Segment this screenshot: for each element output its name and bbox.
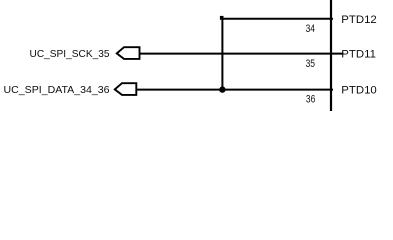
wire pin35 horizontal — [140, 53, 344, 55]
svg-text:34: 34 — [306, 23, 315, 35]
wire pin34 horizontal — [222, 18, 333, 20]
junction — [219, 86, 225, 92]
net flag UC_SPI_SCK_35 — [117, 47, 140, 59]
svg-text:PTD11: PTD11 — [341, 49, 376, 61]
pin number 34 — [306, 23, 315, 35]
wire vertical bus 34-36 — [221, 18, 223, 90]
svg-text:PTD12: PTD12 — [341, 14, 376, 26]
net flag UC_SPI_DATA_34_36 — [115, 83, 137, 95]
svg-text:UC_SPI_SCK_35: UC_SPI_SCK_35 — [30, 49, 110, 60]
pin name PTD11 — [341, 49, 376, 61]
pin number 35 — [306, 58, 315, 70]
svg-text:PTD10: PTD10 — [341, 85, 376, 97]
svg-text:36: 36 — [306, 93, 315, 105]
IC body edge U1 — [330, 0, 332, 111]
wire pin36 horizontal — [136, 89, 333, 91]
pin number 36 — [306, 93, 315, 105]
pin name PTD12 — [341, 14, 376, 26]
pin name PTD10 — [341, 85, 376, 97]
wire corner joint — [220, 16, 224, 20]
net label UC_SPI_SCK_35 — [30, 49, 110, 60]
net label UC_SPI_DATA_34_36 — [4, 85, 110, 96]
svg-text:35: 35 — [306, 58, 315, 70]
svg-text:UC_SPI_DATA_34_36: UC_SPI_DATA_34_36 — [4, 85, 110, 96]
